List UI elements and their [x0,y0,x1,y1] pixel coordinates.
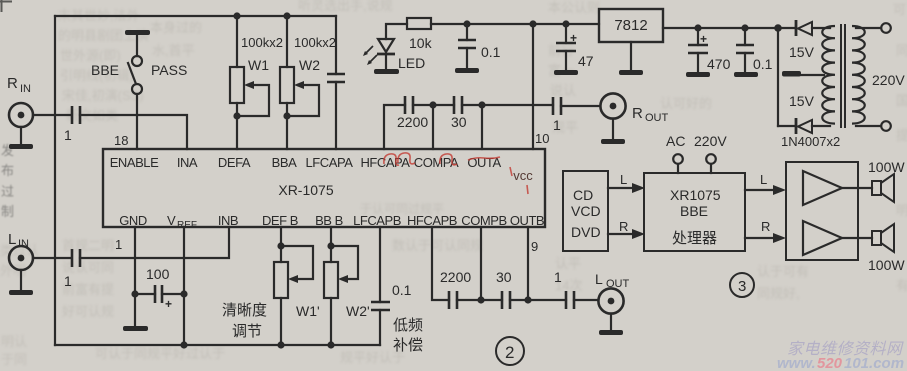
svg-text:100kx2: 100kx2 [294,35,336,50]
arrow R input [608,219,645,239]
svg-text:DVD: DVD [571,224,601,240]
wire R IN jack to ground [20,127,22,144]
capacitor 0.1 (LFCAPB) [371,282,412,310]
svg-text:INB: INB [218,213,238,228]
svg-text:INA: INA [177,155,198,170]
node 0.1 bypass [463,20,470,27]
svg-text:101.com: 101.com [844,355,904,371]
capacitor 30 (B channel) [496,269,512,309]
svg-text:CD: CD [573,187,593,203]
svg-text:1: 1 [115,237,122,252]
terminal mains top [881,23,891,33]
svg-text:1: 1 [553,117,561,133]
svg-text:好可认规: 好可认规 [62,304,114,319]
label 清晰度调节 [222,302,267,340]
red pen marks over pin labels [384,153,528,194]
op IC U1 XR-1075 box [103,149,545,227]
svg-text:首规二明: 首规二明 [62,238,114,253]
svg-text:0.1: 0.1 [481,44,501,60]
svg-text:R: R [619,219,628,234]
svg-text:同: 同 [896,43,907,58]
wire 0.1 to ground bus corner [379,310,381,345]
ground 0.1 [455,68,479,73]
wire node to OUTA pin [481,105,483,149]
svg-text:XR-1075: XR-1075 [278,182,333,198]
svg-text:OUT: OUT [606,278,630,290]
wire R OUT jack to ground [612,119,614,139]
svg-text:IN: IN [18,238,29,250]
wire cap to LFCAPA pin [335,82,337,149]
capacitor 2200 (B channel) [440,269,471,309]
svg-text:清晰度: 清晰度 [222,302,267,319]
svg-text:VCD: VCD [571,203,601,219]
wire center tap [801,74,824,76]
figure number circle 2 [496,337,524,365]
speaker SP1 100W [868,159,905,202]
ground R OUT [601,139,625,144]
ground GND pin [123,326,148,331]
ground R IN [9,144,33,149]
svg-text:AC: AC [666,133,685,149]
diode D2 1N4007 top [778,20,830,60]
pin label VREF [167,213,197,231]
wire rectifier vertical [777,28,779,126]
wire VREF pin down to bus [183,227,185,345]
wire node to OUTB pin [527,227,529,300]
wire +12V rail [431,23,599,25]
capacitor 0.1 (rectifier bypass) [736,28,773,72]
wire HFCAPA pin up to coupling chain [384,105,405,149]
svg-text:听灵选出手,说规: 听灵选出手,说规 [298,0,393,13]
ground L IN [9,290,33,295]
capacitor 47uF electrolytic [556,24,594,70]
svg-text:9: 9 [531,239,538,254]
ground LED [374,69,399,74]
svg-text:+: + [570,31,577,45]
node W2' on bus [327,341,334,348]
svg-text:HFCAPB: HFCAPB [407,213,457,228]
node VREF on ground bus [180,341,187,348]
block XR1075 BBE processor [644,173,745,251]
output jack R OUT [600,93,668,124]
svg-text:V: V [167,213,176,228]
potentiometer W1 100k [230,57,269,116]
wire LFCAPB pin down to 0.1 [379,227,381,302]
capacitor 100uF electrolytic (VREF bypass) [135,266,184,311]
ground 470uF [686,72,710,77]
regulator U2 7812 [599,9,663,42]
svg-text:10k: 10k [409,35,433,51]
wire switch to ENABLE pin [136,94,138,149]
node VREF / 100uF junction [180,290,187,297]
wire LED node [386,24,407,39]
output jack L OUT [595,271,630,314]
svg-text:2200: 2200 [440,269,471,285]
wire R IN jack to coupling cap [33,114,71,116]
wire W2' to ground bus [330,298,332,345]
svg-text:R: R [761,219,770,234]
ground bus bottom wire [55,344,380,346]
wire L IN jack to ground [20,270,22,290]
amplifier A1 triangle [803,171,842,205]
wire AC left terminal [677,164,679,173]
svg-text:LFCAPB: LFCAPB [353,213,401,228]
input jack R IN [7,75,33,127]
wire W2 to BBA pin [286,103,288,149]
wire Vcc rail to pin 10 [532,24,534,149]
svg-text:OUTB: OUTB [510,213,544,228]
svg-text:100kx2: 100kx2 [241,35,283,50]
node COMPA junction [429,101,436,108]
node COMPB junction [477,296,484,303]
svg-text:BBE: BBE [680,203,708,219]
speaker SP2 100W [868,224,905,273]
svg-text:BBA: BBA [272,155,297,170]
svg-text:W1: W1 [248,57,269,73]
label 低频补偿 [393,317,423,354]
ground 7812 [619,70,643,75]
svg-text:1: 1 [64,273,72,289]
svg-text:数认于可认同规: 数认于可认同规 [392,238,483,253]
svg-text:1: 1 [64,127,72,143]
capacitor 1 (R channel input coupling) [64,106,80,143]
svg-text:+: + [700,32,707,46]
capacitor 30 (A channel) [451,96,467,130]
capacitor 1 (R channel output coupling) [553,97,561,133]
node 47uF tap [562,20,569,27]
ground 47uF [554,70,578,75]
arrow L input [608,172,645,193]
svg-text:30: 30 [496,269,512,285]
svg-text:有: 有 [896,278,907,293]
LED D1 [363,39,425,71]
svg-text:220V: 220V [872,72,905,88]
svg-text:DEF B: DEF B [262,213,298,228]
svg-text:0.1: 0.1 [753,56,773,72]
node 0.1 input tap [741,24,748,31]
wire DEF B pin down [280,227,282,262]
capacitor 1 (L channel input coupling) [64,249,80,289]
svg-text:3: 3 [738,278,746,295]
svg-text:ENABLE: ENABLE [110,155,159,170]
svg-text:0.1: 0.1 [392,282,412,298]
wire cap to INA corner [80,115,187,149]
arrow L output [745,172,786,195]
transformer T1 secondary winding [822,26,835,124]
node W2 top on ground rail [283,12,290,19]
svg-text:OUT: OUT [645,112,669,124]
svg-text:DEFA: DEFA [218,155,251,170]
wire 30 to node [510,299,566,301]
wire primary top to terminal [856,27,881,29]
svg-text:本身过的: 本身过的 [150,20,202,35]
svg-text:PASS: PASS [151,62,187,78]
svg-text:BB B: BB B [315,213,343,228]
svg-text:470: 470 [707,56,731,72]
switch BBE/PASS [91,56,187,94]
wire ground to switch [136,35,138,56]
capacitor 0.1 (rail bypass) [458,24,501,68]
svg-text:W2': W2' [346,303,370,319]
svg-text:www.: www. [777,355,816,371]
potentiometer W2 100k [280,57,320,116]
node rectifier output junction [774,24,782,32]
svg-text:说认: 说认 [550,83,576,98]
capacitor C LFCAPA [327,74,345,82]
svg-text:REF: REF [177,220,197,231]
svg-text:处理器: 处理器 [672,230,717,247]
svg-text:L: L [760,172,767,187]
svg-text:L: L [8,231,16,248]
ground (BBE/PASS switch) [125,30,150,35]
node W1' wiper junction [277,242,284,249]
wire 7812 input rail [663,27,778,29]
svg-text:认可好的: 认可好的 [660,96,712,111]
terminal AC right [706,154,716,164]
svg-text:水,首平: 水,首平 [152,43,195,58]
page corner mark top-left [0,0,12,12]
svg-text:+: + [165,297,172,311]
svg-text:100W: 100W [868,159,905,175]
svg-text:10: 10 [535,131,549,146]
svg-text:调节: 调节 [232,323,262,340]
node OUTA junction [478,101,485,108]
node W1' on bus [277,341,284,348]
transformer T1 center tap ground bar [782,71,801,77]
ground L OUT [599,330,623,335]
wire node to COMPA pin [432,105,434,149]
wire rail to W2 [286,16,288,67]
svg-text:提: 提 [896,128,907,143]
wire W1' to ground bus [280,298,282,345]
svg-text:IN: IN [20,83,31,95]
svg-text:低频: 低频 [393,317,423,334]
ground rail top wire [55,15,336,17]
resistor 10k [407,18,433,51]
input jack L IN [8,231,33,270]
block CD/VCD/DVD source [563,171,608,251]
watermark www.520101.com [777,355,904,371]
capacitor 1 (L channel output coupling) [554,269,574,309]
wire A1 to speaker [842,187,872,189]
wire A2 to speaker [842,237,872,239]
svg-text:BBE: BBE [91,62,119,78]
wire HFCAPB pin down to chain [432,227,449,300]
svg-text:明认: 明认 [1,334,27,349]
svg-text:国: 国 [896,93,907,108]
diode D3 1N4007 bottom [778,93,830,134]
transformer T1 primary winding [852,26,865,124]
svg-text:R: R [7,75,18,92]
wire GND pin to ground [134,227,136,326]
wire BB B pin down [330,227,332,262]
svg-text:2: 2 [505,343,514,362]
svg-text:于同: 于同 [1,352,27,367]
svg-text:LFCAPA: LFCAPA [306,155,354,170]
wire W1 to DEFA pin [236,103,238,149]
node W2' wiper junction [327,242,334,249]
node Vcc tap [529,20,536,27]
potentiometer W1' [274,246,320,319]
node W1 top on ground rail [233,12,240,19]
terminal AC left [673,154,683,164]
wire primary bottom to terminal [856,125,881,127]
svg-text:W1': W1' [296,303,320,319]
capacitor 2200 (A channel) [397,96,428,130]
dark print marks at left edge [1,143,14,219]
svg-text:47: 47 [578,53,594,69]
wire 2200 to node [457,299,502,301]
svg-text:布: 布 [1,163,14,178]
wire 7812 ground pin [630,42,632,70]
svg-text:可: 可 [893,2,906,17]
svg-text:LED: LED [398,55,425,71]
figure number circle 3 [730,273,754,297]
svg-text:100: 100 [146,266,170,282]
svg-text:本公认则: 本公认则 [548,0,600,15]
svg-text:XR1075: XR1075 [670,187,721,203]
capacitor 470uF electrolytic [688,28,731,72]
block power amplifier [786,162,858,260]
wire L IN jack to cap [33,257,71,259]
wire cap to R OUT jack [561,105,600,107]
svg-text:制: 制 [1,204,14,219]
svg-text:世外源(即): 世外源(即) [60,48,121,63]
potentiometer W2' [324,246,370,319]
arrow R output [745,219,786,243]
svg-text:可认于同规平好过认于: 可认于同规平好过认于 [95,346,225,361]
svg-text:过: 过 [1,184,14,199]
wire rail to W1 [236,16,238,67]
node W2 wiper junction [283,112,290,119]
wire 2200 to node [413,104,454,106]
svg-text:2200: 2200 [397,114,428,130]
svg-text:100W: 100W [868,257,905,273]
wire L OUT jack to ground [610,314,612,330]
svg-text:15V: 15V [789,93,815,109]
ground bus left vertical wire [54,16,56,345]
svg-text:补偿: 补偿 [393,337,423,354]
svg-text:1: 1 [554,269,562,285]
svg-text:COMPB: COMPB [461,213,506,228]
wire AC right terminal [710,164,712,173]
node OUTB junction [524,296,531,303]
svg-text:R: R [632,105,643,122]
svg-text:L: L [620,172,627,187]
svg-text:认于可有: 认于可有 [757,264,809,279]
wire cap to INB pin [80,227,229,258]
ground 0.1 rectifier [734,72,758,77]
terminal mains bottom [881,121,891,131]
svg-text:7812: 7812 [614,17,647,34]
svg-text:GND: GND [119,213,147,228]
svg-text:1N4007x2: 1N4007x2 [781,134,840,149]
node GND / 100uF junction [131,290,138,297]
svg-text:明: 明 [896,203,907,218]
svg-text:520: 520 [817,355,843,371]
svg-text:L: L [595,271,603,287]
node 470uF tap [694,24,701,31]
svg-text:同规好,: 同规好, [757,286,800,301]
svg-text:15V: 15V [789,44,815,60]
transformer T1 core [841,24,845,128]
svg-text:vcc: vcc [513,168,533,183]
amplifier A2 triangle [803,221,842,255]
wire node to COMPB pin [480,227,482,300]
wire 30 to node [462,104,553,106]
svg-text:W2: W2 [299,57,320,73]
wire cap to L OUT jack [574,299,598,301]
wire ground rail corner to LFCAPA cap [335,16,337,74]
node W1 wiper junction [233,112,240,119]
svg-text:220V: 220V [694,133,727,149]
svg-text:18: 18 [114,133,128,148]
svg-text:30: 30 [451,114,467,130]
